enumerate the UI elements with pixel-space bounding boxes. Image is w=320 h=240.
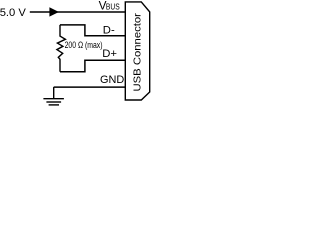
arrowhead on 5.0 V supply wire <box>49 7 59 16</box>
svg-text:USB Connector: USB Connector <box>133 12 144 91</box>
resistor 200 ohm max (zigzag body) <box>57 25 66 72</box>
wire GND (ground symbol to GND pin) <box>54 86 126 88</box>
wire D- (resistor top to D- pin) <box>60 25 126 36</box>
wire D+ (resistor bottom to D+ pin) <box>60 60 126 72</box>
svg-text:D-: D- <box>103 24 115 36</box>
svg-text:5.0 V: 5.0 V <box>0 7 26 19</box>
ground symbol <box>43 87 64 105</box>
svg-text:GND: GND <box>100 74 124 86</box>
wire 5.0 V to VBUS pin <box>30 11 126 13</box>
USB connector J1 (body outline) <box>125 2 149 100</box>
svg-text:200 Ω (max): 200 Ω (max) <box>65 40 103 50</box>
svg-text:BUS: BUS <box>106 1 120 11</box>
svg-text:D+: D+ <box>102 48 117 60</box>
